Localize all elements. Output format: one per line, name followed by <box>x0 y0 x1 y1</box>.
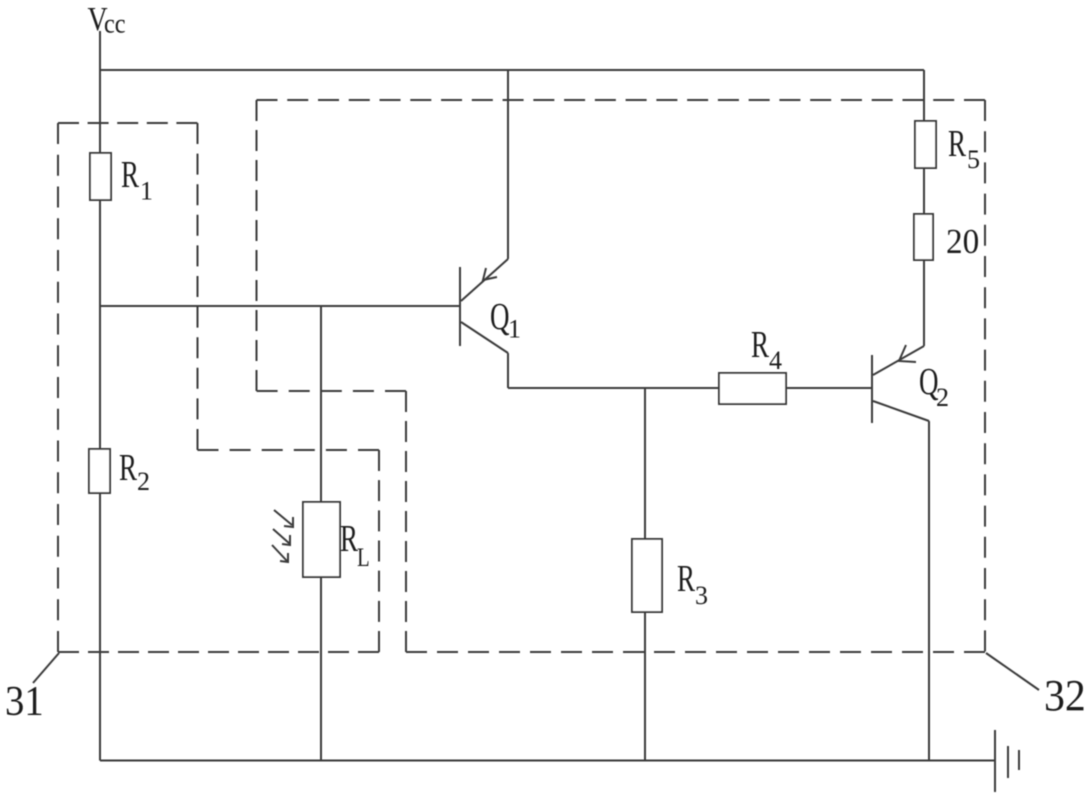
resistor R4 <box>719 373 786 404</box>
svg-text:1: 1 <box>140 177 153 206</box>
svg-text:5: 5 <box>967 145 980 174</box>
svg-text:2: 2 <box>936 383 949 412</box>
svg-text:4: 4 <box>769 346 782 375</box>
svg-text:R: R <box>677 559 695 601</box>
wire block 20 to Q2 collector <box>923 260 925 346</box>
resistor R3 <box>632 539 662 612</box>
net label Vcc <box>88 0 126 39</box>
wire R5 to block 20 <box>923 168 925 214</box>
photoresistor RL <box>303 502 340 577</box>
svg-text:1: 1 <box>508 315 521 344</box>
svg-text:2: 2 <box>137 467 150 496</box>
svg-text:3: 3 <box>695 581 708 610</box>
block 20 <box>914 214 933 260</box>
wire bottom ground rail <box>100 760 995 762</box>
leader line 32 <box>986 653 1039 690</box>
label R2 <box>119 448 150 496</box>
label Q2 <box>919 362 949 412</box>
svg-text:R: R <box>121 155 139 197</box>
wire RL branch top <box>320 306 322 502</box>
wire Q1 collector tap <box>507 70 509 259</box>
wire Q1 emitter drop <box>507 353 509 388</box>
wire R3 branch <box>644 388 646 539</box>
dashed block 31 boundary <box>58 123 379 652</box>
svg-text:32: 32 <box>1044 672 1086 720</box>
svg-text:20: 20 <box>946 223 979 261</box>
wire top rail to R5 <box>923 70 925 121</box>
label R5 <box>948 124 980 174</box>
svg-text:cc: cc <box>104 8 126 38</box>
leader line 31 <box>33 653 59 683</box>
wire Q2 emitter drop <box>928 421 930 761</box>
label R3 <box>677 559 708 610</box>
svg-text:L: L <box>357 544 370 573</box>
wire Vcc rail to R1 <box>99 70 101 153</box>
label R4 <box>751 325 782 375</box>
transistor Q1 <box>460 259 508 353</box>
light arrow 3 into RL <box>272 545 288 562</box>
dashed block 32 boundary <box>257 100 986 652</box>
wire emitter-base rail <box>508 387 871 389</box>
svg-text:31: 31 <box>5 678 44 725</box>
label R1 <box>121 155 153 206</box>
svg-text:R: R <box>119 448 137 490</box>
wire R3 to bottom rail <box>644 612 646 761</box>
wire RL to bottom rail <box>320 577 322 761</box>
resistor R1 <box>90 153 111 200</box>
svg-text:R: R <box>340 519 358 561</box>
label Q1 <box>490 297 521 344</box>
wire base node to R2 <box>99 305 101 449</box>
wire R1 to base node <box>99 200 101 305</box>
label RL <box>340 519 370 573</box>
svg-text:R: R <box>948 124 966 166</box>
svg-text:Q: Q <box>490 297 510 339</box>
resistor R2 <box>89 449 110 493</box>
wire top supply rail <box>100 69 924 71</box>
resistor R5 <box>915 121 936 168</box>
ground <box>995 730 1019 792</box>
wire Vcc stub <box>99 31 101 70</box>
wire Q1 base rail <box>100 305 459 307</box>
transistor Q2 <box>872 345 929 423</box>
light arrow 2 into RL <box>273 529 290 545</box>
light arrow 1 into RL <box>274 510 293 527</box>
svg-text:R: R <box>751 325 769 367</box>
wire R2 to bottom rail <box>99 493 101 761</box>
